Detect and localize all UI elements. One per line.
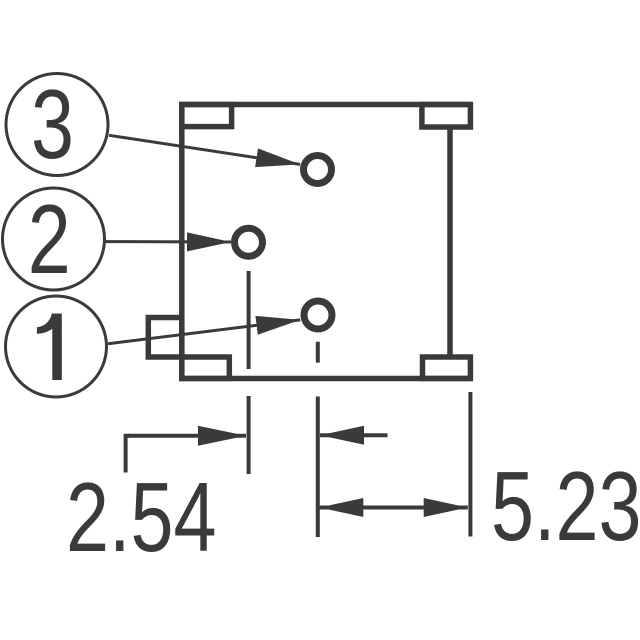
extension line below pin 1 upper dash — [316, 342, 320, 363]
top-right mounting tab — [422, 105, 471, 128]
svg-text:2: 2 — [28, 184, 71, 294]
balloon circle 2 — [3, 188, 105, 290]
leader line pin 3 — [109, 135, 300, 164]
svg-text:5.23: 5.23 — [491, 451, 640, 561]
dimension 2.54 right arrow — [320, 433, 388, 437]
bottom-left inner tab — [182, 357, 230, 379]
extension line below pin 2 lower dash — [247, 396, 251, 474]
svg-text:3: 3 — [31, 69, 74, 179]
dimension 2.54 left bracket — [126, 436, 130, 473]
leader line pin 2 — [105, 240, 231, 243]
extension line below pin 1 lower dash — [316, 397, 320, 538]
svg-text:2.54: 2.54 — [66, 462, 216, 572]
body outline left/top/bottom edges — [182, 105, 471, 379]
pin 3 pad circle — [304, 156, 332, 184]
pin 2 pad circle — [235, 228, 263, 256]
pin 1 pad circle — [304, 301, 332, 329]
top-left mounting tab — [182, 105, 232, 127]
dimension 2.54 left arrow — [128, 434, 246, 438]
balloon circle 1 — [6, 296, 107, 397]
leader line pin 1 — [108, 320, 300, 344]
body right edge segment — [447, 127, 453, 357]
dimension 5.23 double arrow — [319, 506, 467, 510]
bottom-left outer tab — [148, 318, 182, 358]
balloon digit 1 — [37, 314, 62, 381]
balloon circle 3 — [6, 74, 108, 176]
bottom-right mounting tab — [423, 357, 471, 379]
extension line right edge — [468, 392, 472, 537]
extension line below pin 2 upper dash — [247, 271, 251, 369]
